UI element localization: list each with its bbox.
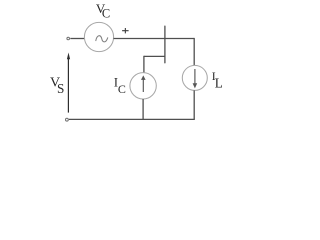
- current source IC (circle): [130, 73, 156, 99]
- IL arrow (down): [194, 69, 196, 85]
- sine symbol inside VC: [96, 36, 108, 42]
- wire: VC source to top-right corner: [114, 38, 195, 40]
- wire: IL bottom down to bottom rail corner: [193, 90, 195, 119]
- node: bottom-left input terminal: [66, 118, 69, 121]
- wire: bottom rail: [69, 118, 195, 120]
- voltage source VC (AC source circle): [84, 22, 113, 51]
- wire: IC upper horizontal link: [144, 55, 165, 57]
- VS reference arrow (points up): [67, 57, 69, 113]
- svg-text:C: C: [102, 6, 110, 20]
- polarity + sign of VC: [122, 28, 129, 33]
- wire: top-left terminal to VC source: [70, 38, 84, 40]
- wire: vertical stub crossing the top wire (IC connection): [164, 26, 166, 63]
- node: top-left input terminal: [67, 37, 70, 40]
- wire: top-right corner down to IL source: [193, 38, 195, 66]
- IC arrow (up): [142, 78, 144, 93]
- svg-text:C: C: [118, 82, 126, 96]
- current source IL (circle): [182, 65, 207, 90]
- wire: IC riser to source top: [143, 56, 145, 73]
- svg-text:L: L: [215, 76, 223, 91]
- wire: IC bottom to bottom rail: [142, 99, 144, 119]
- svg-text:S: S: [57, 81, 64, 96]
